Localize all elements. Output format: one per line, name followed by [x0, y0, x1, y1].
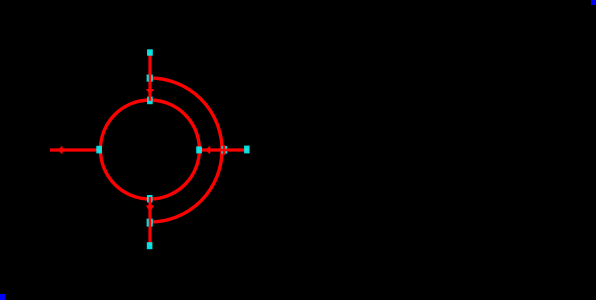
node handle: arc-to-top-lead junction [147, 75, 153, 82]
node handle: bottom lead end [147, 242, 153, 249]
wire W3 segment over circle-top handle [149, 97, 152, 101]
wire W4 segment over circle-bottom handle [149, 197, 152, 203]
wire W1 (left lead) [50, 148, 99, 151]
node handle: arc crossing on right lead [221, 146, 227, 154]
node handle: circle top terminal [147, 97, 153, 105]
wire W4 (bottom lead) [148, 199, 151, 246]
component body: circle of 4-terminal device [100, 100, 199, 199]
selection handle (bottom-left corner, clipped) [0, 294, 5, 300]
wire W2 (right lead) [199, 148, 249, 151]
node handle: circle right terminal [196, 146, 202, 153]
winding arc from top lead to bottom lead [150, 78, 222, 222]
node handle: arc-to-bottom-lead junction [147, 219, 153, 227]
node handle: top lead end [147, 49, 153, 55]
selection handle (top-right corner, clipped) [591, 0, 596, 5]
node handle: circle bottom terminal [147, 195, 153, 202]
current arrow on left lead [59, 147, 62, 153]
current arrow on top lead [147, 90, 153, 93]
wire W3 segment over arc-top junction handle [149, 75, 152, 82]
node handle: right lead end [244, 146, 249, 154]
wire W2 segment over arc-crossing handle [220, 149, 230, 152]
current arrow on right lead [206, 147, 209, 153]
current arrow on bottom lead [147, 206, 153, 211]
winding arc segment over arc-crossing handle [223, 145, 226, 155]
wire W4 segment over arc-bottom junction handle [149, 218, 152, 226]
wire W3 (top lead) [148, 53, 151, 101]
node handle: circle left terminal [96, 146, 102, 154]
